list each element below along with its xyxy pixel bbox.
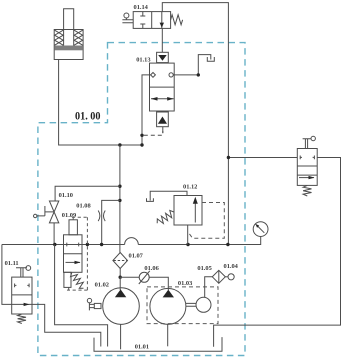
wire: main pressure line	[2, 237, 261, 245]
valve 01.11 through arrow	[12, 303, 32, 305]
node: junction (198.3,74.9)	[197, 73, 200, 76]
valve 01.14 flow path arrow (right square)	[161, 12, 163, 29]
valve 01.12 pilot dashed loop	[188, 203, 225, 239]
filter 01.07 diamond	[113, 253, 128, 269]
valve 01.10 handle	[37, 206, 54, 216]
pump 01.03 circle	[150, 288, 186, 324]
wire: riser x119.9 down to filter 01.07	[119, 145, 121, 253]
right valve actuator	[303, 139, 312, 149]
cylinder spring left	[55, 30, 64, 45]
valve 01.12 drain line	[150, 191, 187, 200]
wire: cylinder to node at y145	[59, 60, 142, 146]
wire: branch to orifice 01.08	[102, 200, 120, 244]
node: junction (55,244.5)	[53, 243, 56, 246]
right valve port marks	[300, 156, 314, 160]
node: junction (120,277.2)	[119, 276, 122, 279]
right valve arrow	[299, 177, 314, 179]
right valve spring	[303, 185, 311, 196]
valve 01.12 arrow	[194, 200, 196, 223]
svg-text:01.06: 01.06	[144, 265, 159, 272]
valve 01.13 bottom check box	[157, 112, 169, 127]
valve 01.11 actuator T with knob	[16, 268, 27, 277]
valve 01.11 port marks	[15, 284, 30, 288]
valve 01.09 drain stub	[68, 287, 70, 290]
valve 01.09 main body	[64, 235, 83, 272]
svg-text:01. 00: 01. 00	[75, 108, 101, 122]
svg-text:01.13: 01.13	[136, 57, 150, 64]
pump 01.03 aux gear pump	[196, 297, 211, 312]
wire: 01.13 left port to x142 riser	[142, 75, 151, 145]
wire: 01.12 output down	[187, 225, 189, 245]
valve 01.09 pilot stem box	[69, 220, 77, 235]
cylinder piston rod	[64, 9, 74, 46]
valve 01.14 body	[133, 12, 170, 29]
cylinder 01.00 body	[54, 30, 83, 60]
valve 01.13 double arrows	[151, 98, 174, 100]
valve 01.11 spring	[18, 314, 26, 324]
wire: node to 01.06 to pump 01.03	[120, 277, 168, 290]
wire: 01.14 top to node, right riser	[162, 3, 228, 245]
node: junction (119.9,145)	[118, 143, 121, 146]
pressure gauge circle	[253, 222, 268, 237]
gauge port 01.04 circle	[228, 274, 234, 280]
boundary box 01.00 (dashed)	[38, 43, 245, 356]
pump 01.02 drive coupling	[87, 298, 91, 302]
svg-text:01.05: 01.05	[197, 265, 211, 272]
svg-text:01.14: 01.14	[134, 4, 149, 11]
valve 01.13 left port diamond	[151, 73, 156, 78]
wire: 01.11 out to tank	[32, 304, 101, 346]
svg-text:01.03: 01.03	[178, 280, 192, 287]
wire: 01.14 down to 01.13	[161, 28, 163, 52]
wire: pump 01.02 suction	[120, 324, 122, 349]
svg-text:01.01: 01.01	[135, 344, 149, 351]
wire: 01.13 right port to drain	[173, 55, 211, 75]
pump 01.02 circle	[103, 288, 140, 325]
wire: 01.10 to main line	[53, 223, 55, 245]
drain tank symbol (near 01.12)	[147, 198, 154, 201]
wire: node to pump 01.02	[119, 277, 121, 290]
valve 01.14 manual actuator	[124, 13, 129, 18]
wire: node (228.2,157.5) to right valve	[228, 157, 297, 159]
valve 01.14 spring	[171, 15, 183, 25]
valve 01.13 top check box	[157, 52, 169, 62]
orifice 01.06 circle with slash	[139, 272, 149, 282]
svg-text:01.08: 01.08	[76, 203, 90, 210]
svg-text:01.12: 01.12	[183, 184, 197, 191]
node: junction (87.4,244.5)	[86, 243, 89, 246]
valve 01.09 arrow	[66, 261, 81, 263]
tank 01.01 outline	[94, 337, 222, 351]
node: junction (228.2,157.5)	[227, 156, 230, 159]
valve 01.13 right port circle	[169, 73, 173, 77]
valve 01.09 port marks	[67, 243, 79, 247]
svg-text:01.10: 01.10	[59, 192, 73, 199]
svg-text:01.11: 01.11	[5, 260, 19, 267]
svg-text:01.04: 01.04	[224, 263, 239, 270]
filter 01.05 diamond	[212, 270, 225, 283]
valve 01.11 body	[12, 277, 32, 314]
wire: 01.13 bottom stub	[162, 127, 164, 133]
node: junction (101.4,244.5)	[100, 243, 103, 246]
valve 01.09 bottom box	[64, 272, 71, 287]
valve 01.13 main body	[150, 63, 175, 111]
drain tank symbol (near 01.13)	[207, 57, 214, 61]
node: junction (227.9,244.5)	[226, 243, 229, 246]
valve 01.12 body	[174, 196, 202, 226]
node: junction (188,244.5)	[186, 243, 189, 246]
node: junction (142,145)	[140, 143, 143, 146]
wire: branch to 01.10	[55, 186, 120, 201]
wire: left drop to 01.11	[2, 245, 12, 305]
node: junction (119.9,186.2)	[118, 185, 121, 188]
valve 01.14 blocked ports (left square)	[140, 12, 145, 29]
pressure gauge needle	[257, 226, 264, 233]
pilot dashed: node x142 to 01.13 bottom	[144, 131, 163, 135]
valve 01.12 spring	[157, 210, 174, 223]
wire: pump 01.03 suction	[167, 324, 169, 346]
dashed enclosure around pump 01.03	[147, 287, 218, 324]
valve 01.10 (shutoff bowtie)	[49, 201, 58, 223]
wire: 01.05 to aux pump	[205, 277, 213, 298]
right valve body	[297, 149, 317, 186]
svg-text:01.09: 01.09	[62, 212, 76, 219]
cylinder piston (gray)	[55, 46, 83, 51]
orifice 01.08 arcs	[98, 211, 105, 222]
svg-text:01.07: 01.07	[129, 253, 144, 260]
wire: drain from node55 to tank	[55, 245, 108, 347]
wire: crossover hop	[125, 238, 139, 245]
wire: filter to pump node	[119, 269, 121, 278]
wire: right valve to tank return	[214, 158, 341, 347]
valve 01.09 pilot dashed lines	[67, 217, 87, 290]
cylinder spring right	[74, 30, 83, 45]
valve 01.09 spring	[71, 273, 84, 289]
node: junction (119.9,200.4)	[118, 199, 121, 202]
svg-text:01.02: 01.02	[95, 282, 109, 289]
node: junction (142,135)	[140, 134, 143, 137]
